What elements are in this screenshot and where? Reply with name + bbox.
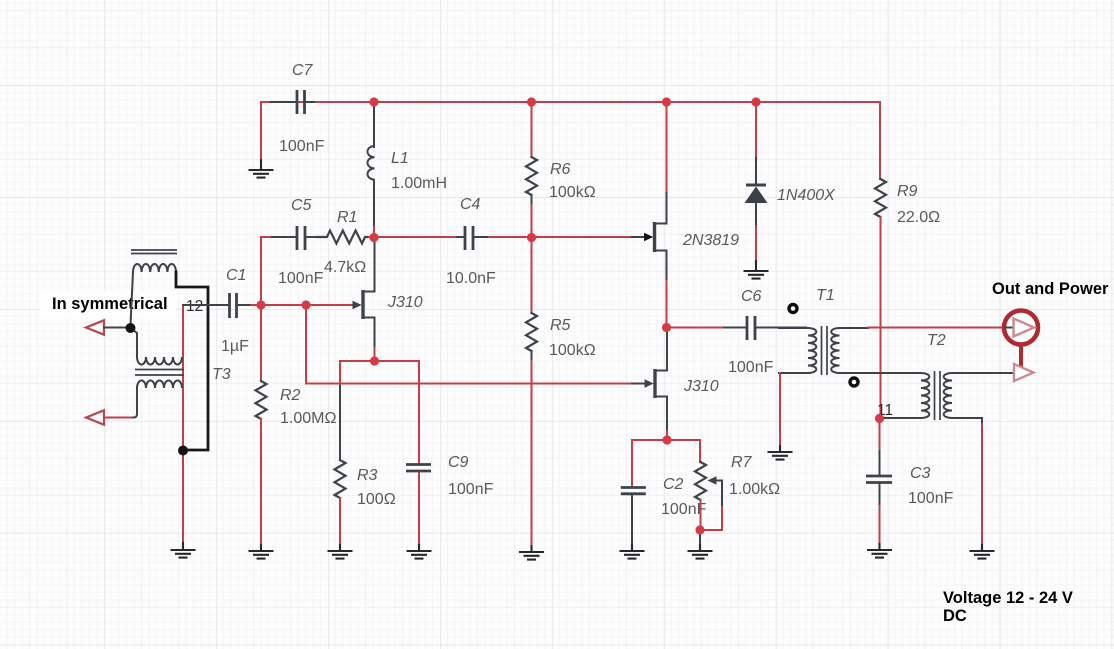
svg-text:100kΩ: 100kΩ: [549, 184, 596, 201]
wire J310 lower drain up: [666, 328, 668, 371]
svg-text:R7: R7: [731, 454, 753, 471]
wire C3 branch: [879, 419, 881, 452]
transformer T1 core: [822, 326, 828, 375]
wire C1 to gate row: [251, 304, 353, 306]
svg-text:C4: C4: [460, 196, 481, 213]
svg-text:C3: C3: [910, 465, 931, 482]
resistor R5: [526, 313, 537, 351]
resistor R7 potentiometer: [695, 462, 706, 500]
capacitor C5: [272, 226, 317, 250]
junction C1 R2 node: [256, 300, 265, 309]
wire R2 to ground: [260, 419, 262, 545]
resistor R3: [335, 460, 346, 498]
wire R9 down to node 11: [880, 217, 882, 419]
wire R3 branch: [339, 361, 341, 386]
diode D1 1N400X: [745, 185, 768, 203]
transformer T2 primary winding: [921, 373, 929, 418]
svg-text:C2: C2: [663, 476, 684, 493]
wire gate drop to lower JFET row: [305, 305, 307, 384]
ground R5: [519, 545, 544, 560]
wire C9 to ground: [418, 473, 420, 546]
svg-text:R9: R9: [897, 183, 918, 200]
resistor R9: [875, 179, 886, 217]
wire J310 lower source down: [666, 397, 668, 432]
ground R3: [328, 544, 353, 559]
ground C2: [620, 544, 645, 559]
capacitor C7: [271, 90, 314, 114]
wire 2N3819 drain up: [666, 191, 668, 224]
wire T1 secondary top to output: [840, 327, 869, 329]
svg-text:L1: L1: [391, 150, 409, 167]
wire T1 left bottom to ground: [779, 373, 781, 446]
svg-text:Out and Power: Out and Power: [992, 280, 1109, 298]
ground C9: [407, 544, 432, 559]
capacitor C6: [724, 316, 806, 340]
wire C2 to ground: [631, 496, 633, 546]
svg-text:DC: DC: [943, 607, 967, 625]
svg-text:R5: R5: [550, 317, 571, 334]
wire R6 bottom to node: [531, 195, 533, 205]
wire T3 secondary lower left rail: [131, 388, 137, 418]
wire R2 drop: [260, 305, 262, 381]
wire T3 secondary upper left rail: [131, 328, 138, 357]
junction gate node: [301, 300, 310, 309]
svg-text:R1: R1: [337, 209, 357, 226]
resistor R1: [317, 231, 369, 244]
wire R7 bottom to ground: [700, 500, 702, 530]
wire input 1 stub: [104, 327, 127, 329]
transformer T3 secondary winding upper coil: [137, 357, 182, 365]
port Out and Power circle: [1004, 311, 1038, 345]
junction J310 lower source node: [662, 435, 671, 444]
capacitor C3: [866, 476, 892, 483]
wire R1 node to C4: [369, 236, 457, 238]
ground T2: [970, 544, 995, 559]
polarity dot T1 right: [850, 378, 858, 386]
ground C3: [867, 543, 892, 558]
junction T3 bottom node: [178, 446, 188, 456]
wiper arrow R7: [708, 476, 723, 507]
junction top rail L1: [369, 97, 378, 106]
wire R9 top drop: [879, 102, 881, 179]
svg-text:10.0nF: 10.0nF: [446, 270, 496, 287]
junction R1 C4 node: [369, 233, 378, 242]
junction R7 bottom node: [695, 525, 704, 534]
wire R3 to ground: [339, 498, 341, 545]
wire R5 bottom to ground: [531, 351, 533, 361]
svg-text:C6: C6: [741, 288, 762, 305]
svg-text:C9: C9: [448, 454, 469, 471]
wire R7 wiper to bottom: [700, 507, 722, 530]
wire drain node to C6: [667, 327, 725, 329]
svg-text:C5: C5: [291, 197, 312, 214]
ground R2: [249, 544, 274, 559]
wire C4 to R6 node: [489, 236, 532, 238]
ground T3: [171, 542, 196, 558]
svg-text:100nF: 100nF: [279, 138, 325, 155]
junction top rail diode: [751, 97, 760, 106]
svg-text:J310: J310: [683, 378, 719, 395]
svg-text:2N3819: 2N3819: [682, 232, 739, 249]
wire C2 branch: [631, 440, 633, 486]
port output arrow 2: [1014, 364, 1034, 381]
svg-text:T2: T2: [927, 332, 946, 349]
svg-text:R3: R3: [357, 467, 378, 484]
wire T1 secondary bottom to T2: [840, 372, 922, 374]
svg-text:1.00mH: 1.00mH: [391, 175, 447, 192]
svg-text:Voltage 12 - 24 V: Voltage 12 - 24 V: [943, 589, 1073, 607]
wire T2 primary bottom to node 11: [884, 417, 921, 419]
transistor Q3 J310 lower: [645, 369, 668, 398]
junction J310 upper source node: [370, 356, 379, 365]
transformer T3 core middle: [135, 370, 184, 376]
wire C7 left drop: [260, 102, 262, 160]
transistor Q2 J310 upper: [353, 290, 375, 319]
ground T1: [768, 445, 793, 460]
svg-text:T3: T3: [212, 366, 231, 383]
wire C1 row left: [183, 304, 228, 306]
svg-text:J310: J310: [387, 294, 423, 311]
ground R7: [688, 544, 713, 559]
svg-text:R2: R2: [280, 387, 301, 404]
capacitor C4: [457, 226, 489, 250]
svg-text:12: 12: [186, 298, 203, 315]
junction node 11: [875, 414, 884, 423]
wire port stem: [1019, 345, 1023, 369]
port arrow inside circle: [1005, 327, 1013, 329]
inductor L1: [368, 146, 375, 180]
svg-text:C7: C7: [292, 62, 314, 79]
resistor R6: [526, 157, 537, 195]
wire C5 branch vertical: [260, 237, 262, 305]
wire output stub into port: [1003, 327, 1014, 329]
svg-text:T1: T1: [816, 287, 835, 304]
wire J310 upper source down: [374, 318, 376, 349]
wire R6 top drop: [531, 102, 533, 157]
junction top rail 2N3819: [662, 97, 671, 106]
transistor Q1 2N3819: [644, 222, 667, 252]
junction C4 R6 node: [527, 233, 536, 242]
svg-text:C1: C1: [226, 267, 246, 284]
svg-text:R6: R6: [550, 161, 571, 178]
ground C7: [249, 159, 274, 178]
ground diode: [744, 260, 769, 279]
svg-text:1.00MΩ: 1.00MΩ: [280, 410, 336, 427]
svg-text:100nF: 100nF: [908, 490, 954, 507]
wire T2 secondary top to output port 2: [952, 372, 1013, 374]
capacitor C2: [621, 488, 646, 494]
wire gate feed long row: [306, 383, 632, 385]
wire J310 upper drain up: [374, 237, 376, 292]
svg-text:100nF: 100nF: [728, 359, 774, 376]
transformer T1 secondary winding: [831, 328, 839, 373]
transformer T1 primary winding: [808, 328, 816, 373]
junction input node 1: [126, 323, 136, 333]
junction top rail R6: [527, 97, 536, 106]
transformer T3 secondary winding lower coil: [137, 381, 182, 388]
wire R6 node to R5: [531, 237, 533, 313]
wire input 2 stub: [104, 417, 131, 419]
wire C3 to ground: [879, 484, 881, 506]
svg-text:100Ω: 100Ω: [357, 491, 396, 508]
svg-text:In symmetrical: In symmetrical: [52, 295, 168, 313]
wire gate feed to 2N3819: [532, 236, 633, 238]
wire diode drop: [755, 102, 757, 158]
wire T3 primary left rail: [131, 272, 134, 325]
capacitor C1: [230, 293, 252, 318]
junction drain node C6: [662, 323, 671, 332]
wire source box row lower: [632, 439, 700, 441]
capacitor C9: [406, 465, 431, 472]
resistor R2: [256, 381, 267, 419]
wire R7 branch: [699, 440, 701, 462]
wire T2 secondary bottom right: [952, 418, 982, 424]
wire top power rail: [261, 101, 880, 103]
wire L1 to R1 node: [373, 180, 375, 227]
transformer T3 primary winding coil: [133, 264, 176, 272]
svg-text:1.00kΩ: 1.00kΩ: [729, 481, 780, 498]
transformer T3 core top winding: [131, 250, 177, 254]
wire source box top: [340, 360, 419, 362]
svg-text:1N400X: 1N400X: [777, 187, 836, 204]
node In symmetrical label background: [40, 291, 176, 318]
svg-text:4.7kΩ: 4.7kΩ: [324, 259, 366, 276]
transformer T2 secondary winding: [944, 373, 952, 418]
svg-text:100nF: 100nF: [448, 481, 494, 498]
wire L1 drop: [373, 104, 375, 147]
svg-text:22.0Ω: 22.0Ω: [897, 209, 940, 226]
wire C5 row left: [261, 236, 272, 238]
wire T3 primary right path: [176, 272, 208, 450]
wire diode to ground: [755, 203, 757, 226]
polarity dot T1 left: [789, 305, 797, 313]
port input arrow 2: [86, 410, 104, 424]
wire C9 branch: [418, 361, 420, 463]
wire T3 secondary tap red rail: [182, 306, 184, 546]
wire 2N3819 source down: [666, 251, 668, 282]
transformer T2 core: [935, 371, 941, 420]
port input arrow 1: [86, 320, 104, 334]
svg-text:100kΩ: 100kΩ: [549, 342, 596, 359]
svg-text:1µF: 1µF: [221, 338, 249, 355]
svg-text:100nF: 100nF: [278, 270, 324, 287]
